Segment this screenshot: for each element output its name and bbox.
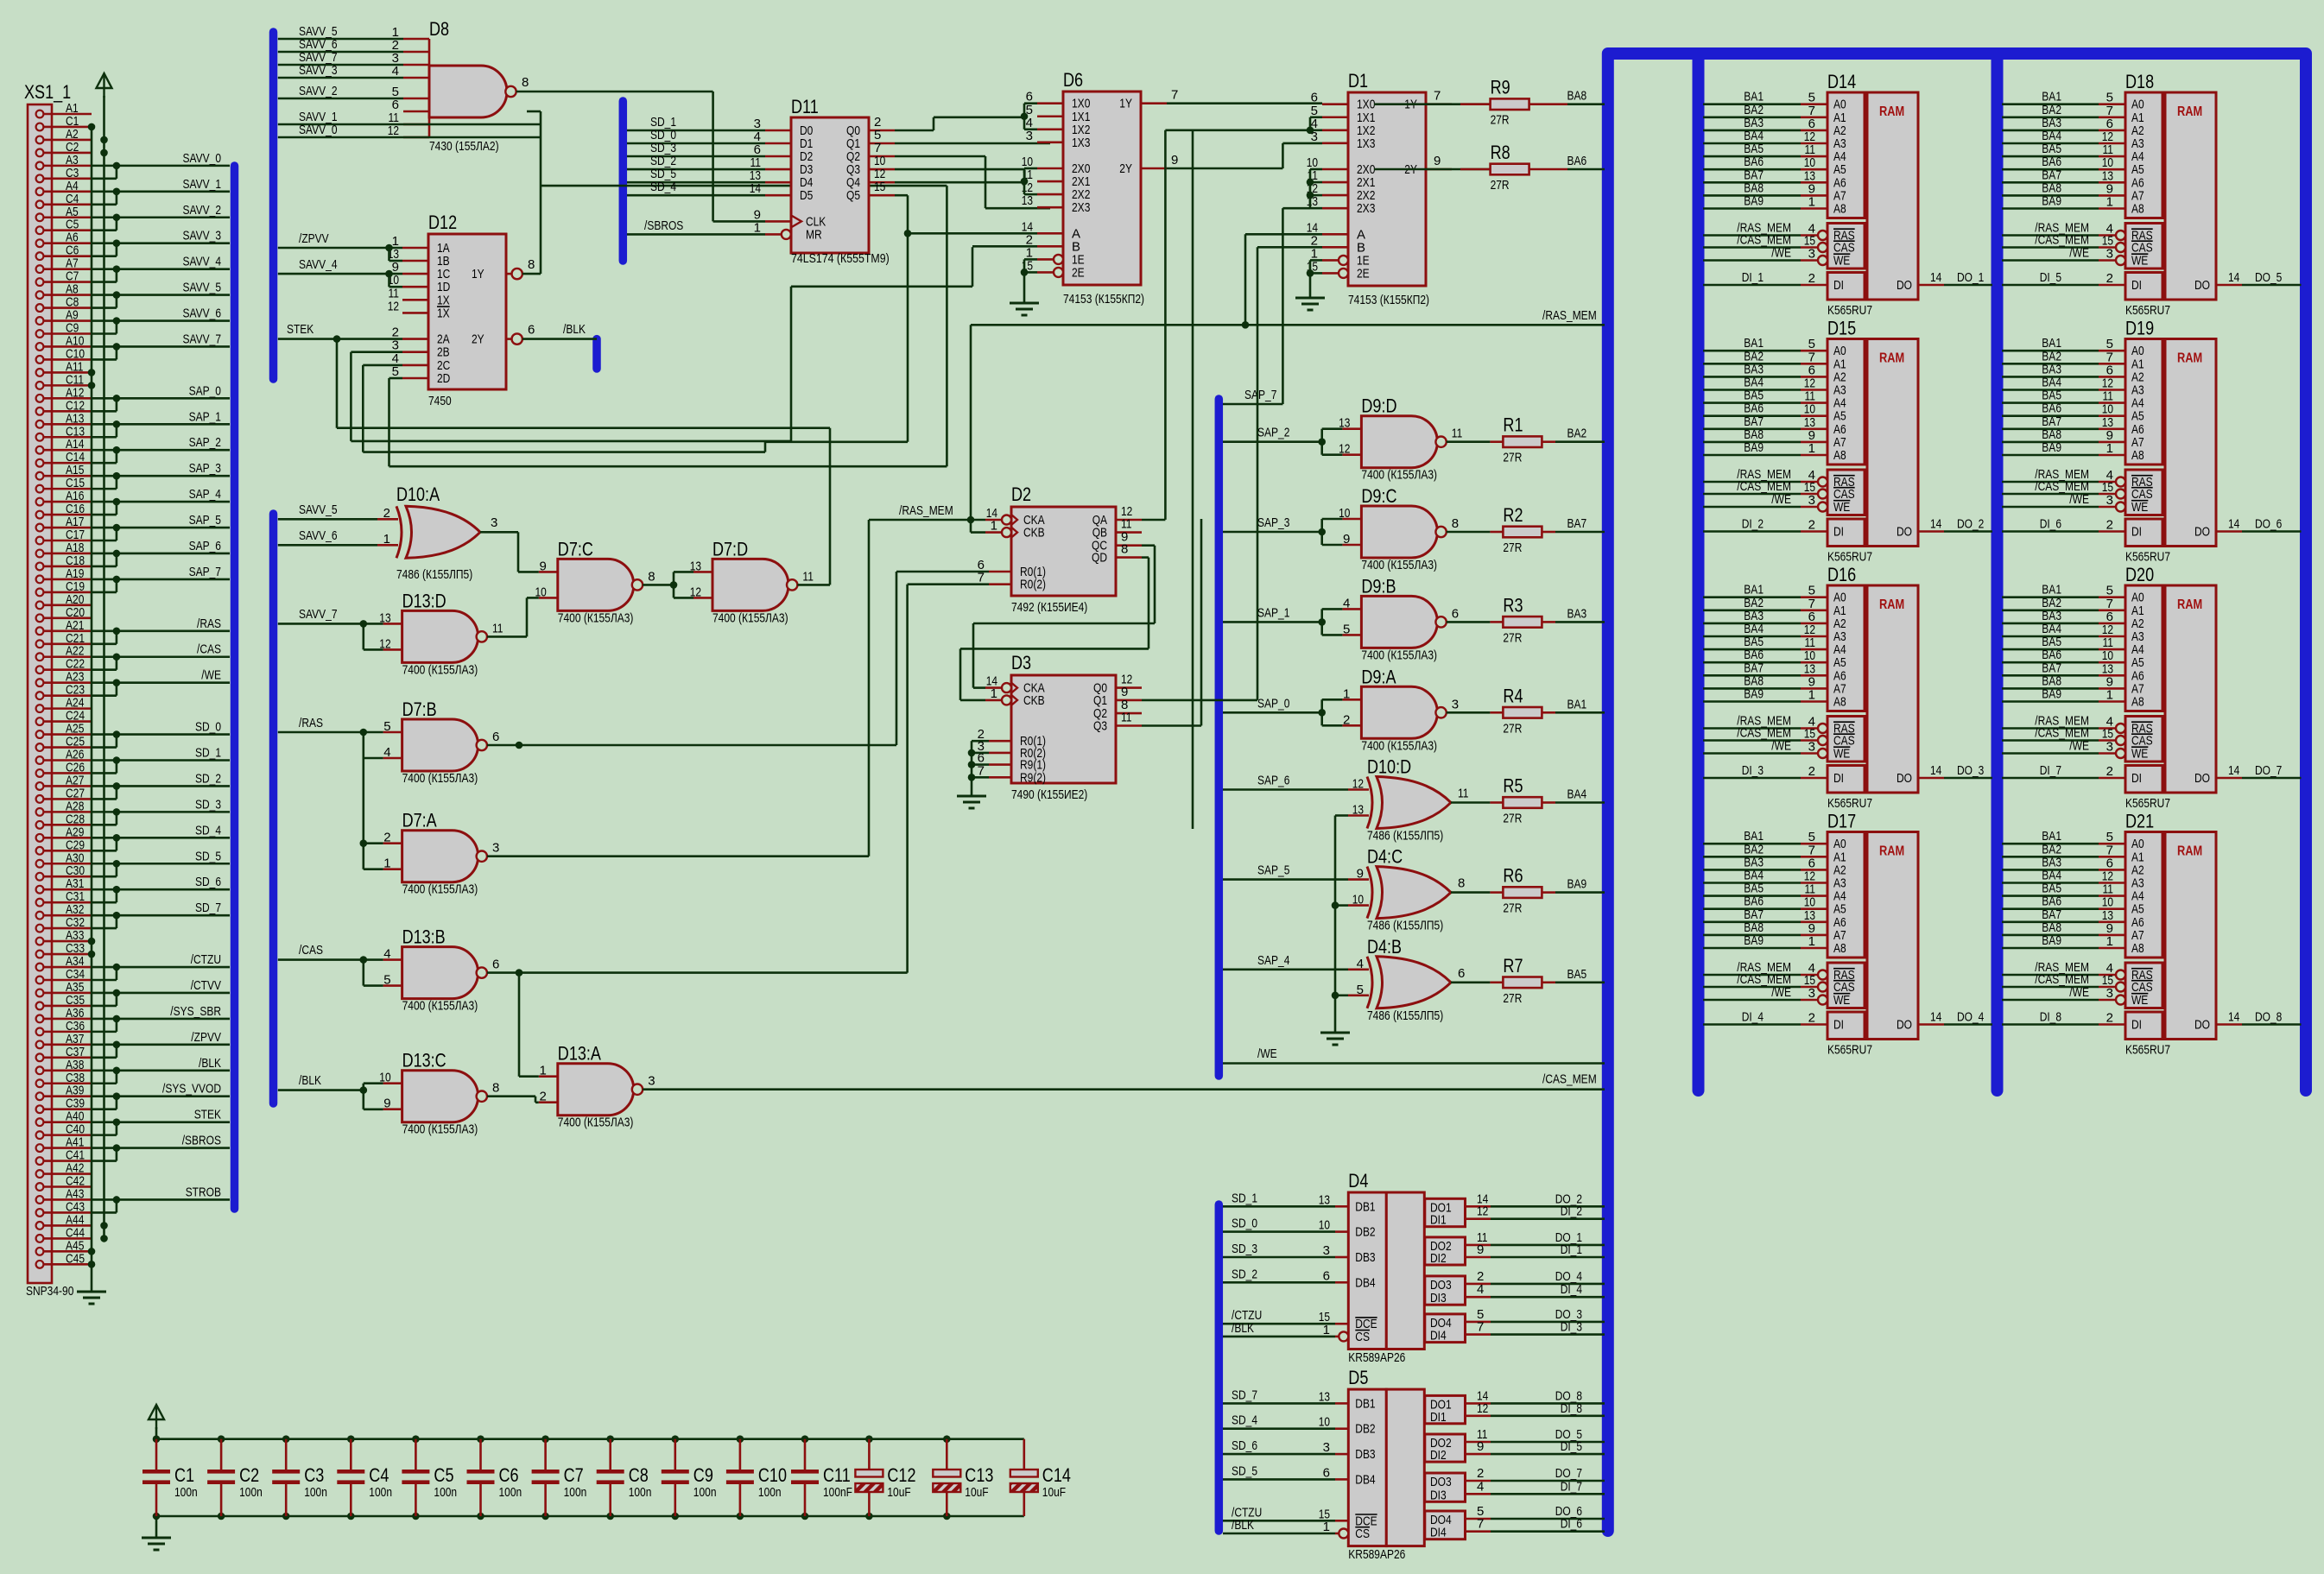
svg-text:DO_5: DO_5 xyxy=(2255,270,2282,285)
svg-text:6: 6 xyxy=(492,958,499,972)
svg-text:10uF: 10uF xyxy=(965,1485,988,1500)
svg-text:DO_3: DO_3 xyxy=(1957,763,1984,778)
svg-text:D13:D: D13:D xyxy=(402,590,446,611)
svg-text:A8: A8 xyxy=(2131,695,2144,710)
svg-text:SAVV_2: SAVV_2 xyxy=(299,84,338,98)
svg-text:14: 14 xyxy=(2228,270,2239,285)
svg-text:/BLK: /BLK xyxy=(563,322,586,337)
svg-text:8: 8 xyxy=(1458,876,1465,891)
svg-text:100n: 100n xyxy=(434,1485,457,1500)
svg-text:STROB: STROB xyxy=(186,1185,221,1199)
svg-text:1X3: 1X3 xyxy=(1357,136,1375,151)
svg-text:/BLK: /BLK xyxy=(1232,1518,1254,1533)
svg-text:DI_2: DI_2 xyxy=(1742,517,1764,532)
svg-text:2: 2 xyxy=(2106,271,2113,286)
svg-text:1: 1 xyxy=(991,686,997,701)
svg-text:3: 3 xyxy=(492,841,499,856)
svg-text:BA9: BA9 xyxy=(2042,440,2061,455)
svg-text:2: 2 xyxy=(1808,1011,1815,1026)
svg-text:SAP_4: SAP_4 xyxy=(1257,953,1289,968)
svg-text:3: 3 xyxy=(1808,740,1815,755)
svg-text:STEK: STEK xyxy=(194,1108,221,1122)
svg-text:3: 3 xyxy=(648,1074,655,1089)
svg-text:4: 4 xyxy=(392,64,399,79)
svg-text:1: 1 xyxy=(2106,441,2113,456)
svg-text:10uF: 10uF xyxy=(887,1485,910,1500)
svg-text:DO_2: DO_2 xyxy=(1957,517,1984,532)
svg-text:K565RU7: K565RU7 xyxy=(2125,796,2170,811)
svg-text:WE: WE xyxy=(1833,254,1850,269)
svg-text:BA9: BA9 xyxy=(2042,194,2061,209)
svg-text:SAVV_3: SAVV_3 xyxy=(299,63,338,78)
svg-text:SD_4: SD_4 xyxy=(195,823,221,838)
svg-text:27R: 27R xyxy=(1503,540,1522,555)
svg-text:/ZPVV: /ZPVV xyxy=(299,231,329,246)
svg-text:SAVV_5: SAVV_5 xyxy=(299,503,338,517)
svg-text:D14: D14 xyxy=(1827,71,1856,92)
svg-text:R4: R4 xyxy=(1503,685,1523,706)
svg-text:SD_7: SD_7 xyxy=(195,901,221,915)
svg-text:SAP_1: SAP_1 xyxy=(189,409,221,424)
svg-text:7486 (К155ЛП5): 7486 (К155ЛП5) xyxy=(1367,1008,1443,1023)
svg-text:/RAS: /RAS xyxy=(197,616,221,631)
svg-text:DO_6: DO_6 xyxy=(2255,517,2282,532)
svg-text:SAVV_2: SAVV_2 xyxy=(183,203,222,218)
svg-text:2: 2 xyxy=(1808,271,1815,286)
svg-text:/WE: /WE xyxy=(2069,492,2089,507)
svg-text:K565RU7: K565RU7 xyxy=(1827,303,1872,318)
svg-text:27R: 27R xyxy=(1491,113,1510,128)
svg-text:14: 14 xyxy=(1930,270,1941,285)
svg-text:D10:A: D10:A xyxy=(396,484,440,505)
svg-text:DO_1: DO_1 xyxy=(1957,270,1984,285)
svg-text:WE: WE xyxy=(2131,747,2148,762)
svg-text:SD_2: SD_2 xyxy=(195,771,221,786)
svg-text:R7: R7 xyxy=(1503,955,1523,977)
svg-text:9: 9 xyxy=(539,559,546,573)
svg-text:KR589AP26: KR589AP26 xyxy=(1348,1547,1405,1562)
svg-text:74LS174 (К555ТМ9): 74LS174 (К555ТМ9) xyxy=(791,251,890,266)
svg-text:1X3: 1X3 xyxy=(1072,136,1090,150)
svg-text:C2: C2 xyxy=(239,1464,259,1486)
svg-text:WE: WE xyxy=(1833,747,1850,762)
svg-text:/RAS_MEM: /RAS_MEM xyxy=(899,503,953,518)
svg-text:DI_8: DI_8 xyxy=(2040,1010,2061,1025)
svg-text:DB1: DB1 xyxy=(1355,1396,1375,1411)
svg-text:C12: C12 xyxy=(887,1464,915,1486)
svg-text:SAP_2: SAP_2 xyxy=(189,435,221,450)
svg-text:1: 1 xyxy=(2106,688,2113,703)
svg-text:SAP_5: SAP_5 xyxy=(189,513,221,528)
svg-text:/RAS: /RAS xyxy=(299,716,323,730)
svg-text:2: 2 xyxy=(1808,518,1815,533)
svg-text:15: 15 xyxy=(874,180,885,194)
svg-text:MR: MR xyxy=(806,227,822,242)
svg-text:DO: DO xyxy=(1897,1018,1912,1033)
svg-text:R0(2): R0(2) xyxy=(1020,578,1046,592)
svg-text:6: 6 xyxy=(492,730,499,744)
svg-text:WE: WE xyxy=(2131,993,2148,1008)
svg-text:7: 7 xyxy=(1434,89,1441,104)
svg-text:SD_5: SD_5 xyxy=(195,849,221,863)
svg-text:7400 (К155ЛА3): 7400 (К155ЛА3) xyxy=(402,999,478,1014)
svg-text:D17: D17 xyxy=(1827,811,1856,832)
svg-text:11: 11 xyxy=(1452,427,1463,441)
svg-text:1: 1 xyxy=(1323,1520,1330,1534)
svg-text:7400 (К155ЛА3): 7400 (К155ЛА3) xyxy=(402,1122,478,1137)
svg-text:100n: 100n xyxy=(174,1485,198,1500)
svg-text:BA9: BA9 xyxy=(1744,440,1764,455)
svg-text:D4:B: D4:B xyxy=(1367,936,1402,958)
svg-text:D4:C: D4:C xyxy=(1367,846,1403,868)
svg-text:2: 2 xyxy=(2106,764,2113,779)
svg-text:K565RU7: K565RU7 xyxy=(1827,1043,1872,1058)
svg-text:C4: C4 xyxy=(369,1464,389,1486)
svg-text:BA9: BA9 xyxy=(1744,194,1764,209)
svg-text:DO: DO xyxy=(1897,771,1912,786)
svg-text:DI: DI xyxy=(1833,525,1844,540)
svg-text:DI_6: DI_6 xyxy=(1561,1517,1582,1532)
svg-text:DB4: DB4 xyxy=(1355,1275,1375,1290)
svg-text:DI_4: DI_4 xyxy=(1742,1010,1764,1025)
svg-text:R1: R1 xyxy=(1503,414,1523,436)
svg-text:3: 3 xyxy=(2106,493,2113,508)
svg-text:7400 (К155ЛА3): 7400 (К155ЛА3) xyxy=(712,610,788,625)
svg-text:14: 14 xyxy=(750,181,761,196)
svg-text:C5: C5 xyxy=(434,1464,453,1486)
svg-text:D7:D: D7:D xyxy=(712,538,748,559)
svg-text:4: 4 xyxy=(1343,596,1350,610)
svg-text:7400 (К155ЛА3): 7400 (К155ЛА3) xyxy=(1361,738,1437,753)
svg-text:SD_5: SD_5 xyxy=(1232,1463,1257,1478)
svg-text:2E: 2E xyxy=(1357,266,1370,281)
svg-text:DI: DI xyxy=(2131,278,2142,293)
svg-text:A8: A8 xyxy=(1833,695,1846,710)
svg-text:D10:D: D10:D xyxy=(1367,756,1411,778)
svg-text:/WE: /WE xyxy=(2069,739,2089,754)
svg-text:7400 (К155ЛА3): 7400 (К155ЛА3) xyxy=(1361,558,1437,572)
svg-text:DO_7: DO_7 xyxy=(2255,763,2282,778)
svg-text:12: 12 xyxy=(388,299,399,313)
svg-text:D13:A: D13:A xyxy=(558,1043,601,1065)
svg-text:9: 9 xyxy=(383,1097,390,1111)
svg-text:BA6: BA6 xyxy=(1567,154,1587,168)
svg-text:SD_4: SD_4 xyxy=(650,180,676,194)
svg-text:SAP_4: SAP_4 xyxy=(189,487,221,502)
svg-text:27R: 27R xyxy=(1503,812,1522,826)
svg-text:DO: DO xyxy=(1897,278,1912,293)
svg-text:DI: DI xyxy=(1833,771,1844,786)
svg-text:100n: 100n xyxy=(564,1485,587,1500)
svg-text:C13: C13 xyxy=(965,1464,993,1486)
svg-text:5: 5 xyxy=(383,719,390,734)
svg-text:DI_1: DI_1 xyxy=(1561,1242,1582,1257)
svg-text:D8: D8 xyxy=(429,18,449,40)
svg-text:7: 7 xyxy=(1477,1320,1484,1335)
svg-text:DO_4: DO_4 xyxy=(1957,1010,1984,1025)
svg-text:D11: D11 xyxy=(791,96,819,117)
svg-text:/WE: /WE xyxy=(2069,246,2089,261)
svg-text:10uF: 10uF xyxy=(1042,1485,1066,1500)
svg-text:/BLK: /BLK xyxy=(199,1056,221,1071)
svg-text:DI4: DI4 xyxy=(1430,1329,1447,1343)
svg-text:1: 1 xyxy=(754,220,761,235)
svg-text:27R: 27R xyxy=(1503,991,1522,1006)
svg-text:10: 10 xyxy=(1352,893,1364,907)
svg-text:RAM: RAM xyxy=(2177,597,2202,612)
svg-text:DI: DI xyxy=(1833,278,1844,293)
svg-text:CS: CS xyxy=(1355,1527,1370,1541)
svg-text:9: 9 xyxy=(1171,153,1178,168)
svg-text:RAM: RAM xyxy=(1879,104,1904,119)
svg-text:/WE: /WE xyxy=(201,668,221,683)
svg-text:1: 1 xyxy=(1808,441,1815,456)
svg-text:R6: R6 xyxy=(1503,865,1523,887)
svg-text:C11: C11 xyxy=(823,1464,851,1486)
svg-text:7400 (К155ЛА3): 7400 (К155ЛА3) xyxy=(558,1116,634,1130)
svg-text:13: 13 xyxy=(1022,193,1033,208)
svg-text:4: 4 xyxy=(1477,1282,1484,1297)
svg-text:BA9: BA9 xyxy=(2042,687,2061,702)
svg-text:27R: 27R xyxy=(1503,451,1522,465)
svg-text:13: 13 xyxy=(1319,1192,1330,1207)
svg-text:DI_6: DI_6 xyxy=(2040,517,2061,532)
svg-text:/CTVV: /CTVV xyxy=(191,978,221,993)
svg-text:SAP_7: SAP_7 xyxy=(189,565,221,579)
svg-text:K565RU7: K565RU7 xyxy=(2125,303,2170,318)
svg-text:SAP_2: SAP_2 xyxy=(1257,426,1289,440)
svg-text:5: 5 xyxy=(383,973,390,988)
svg-text:7: 7 xyxy=(1477,1517,1484,1532)
svg-text:1: 1 xyxy=(383,532,390,547)
svg-text:C3: C3 xyxy=(304,1464,324,1486)
svg-text:100n: 100n xyxy=(629,1485,652,1500)
svg-text:DI_5: DI_5 xyxy=(2040,270,2061,285)
svg-text:R9: R9 xyxy=(1491,77,1510,98)
svg-text:3: 3 xyxy=(1323,1440,1330,1455)
svg-text:27R: 27R xyxy=(1503,630,1522,645)
svg-text:D18: D18 xyxy=(2125,71,2154,92)
svg-text:100n: 100n xyxy=(369,1485,392,1500)
svg-text:D9:A: D9:A xyxy=(1361,666,1396,687)
svg-text:5: 5 xyxy=(392,364,399,379)
svg-text:R3: R3 xyxy=(1503,594,1523,616)
svg-text:7400 (К155ЛА3): 7400 (К155ЛА3) xyxy=(402,662,478,677)
svg-text:8: 8 xyxy=(492,1081,499,1096)
svg-text:SD_0: SD_0 xyxy=(1232,1217,1257,1231)
svg-text:BA9: BA9 xyxy=(2042,933,2061,948)
svg-text:DI2: DI2 xyxy=(1430,1448,1447,1463)
svg-text:C14: C14 xyxy=(1042,1464,1071,1486)
svg-text:SD_3: SD_3 xyxy=(195,797,221,812)
svg-text:WE: WE xyxy=(2131,500,2148,515)
svg-text:RAM: RAM xyxy=(1879,597,1904,612)
svg-text:1: 1 xyxy=(1808,195,1815,210)
svg-text:/BLK: /BLK xyxy=(299,1073,321,1088)
svg-text:6: 6 xyxy=(528,323,535,338)
svg-text:100n: 100n xyxy=(499,1485,522,1500)
svg-text:7486 (К155ЛП5): 7486 (К155ЛП5) xyxy=(1367,919,1443,933)
svg-text:12: 12 xyxy=(1477,1204,1488,1219)
svg-text:D9:B: D9:B xyxy=(1361,575,1396,597)
svg-text:D21: D21 xyxy=(2125,811,2154,832)
svg-text:8: 8 xyxy=(1452,516,1459,531)
svg-text:/WE: /WE xyxy=(1771,985,1791,1000)
svg-text:1: 1 xyxy=(1343,686,1350,701)
svg-text:BA9: BA9 xyxy=(1744,933,1764,948)
svg-text:11: 11 xyxy=(492,621,503,635)
svg-text:SD_1: SD_1 xyxy=(195,746,221,761)
svg-text:3: 3 xyxy=(2106,247,2113,262)
svg-text:BA8: BA8 xyxy=(1567,89,1587,104)
svg-text:D5: D5 xyxy=(800,188,813,203)
svg-text:12: 12 xyxy=(388,123,399,138)
svg-text:1: 1 xyxy=(1323,1323,1330,1337)
svg-text:D2: D2 xyxy=(1011,484,1031,505)
svg-text:C7: C7 xyxy=(564,1464,584,1486)
svg-text:CKB: CKB xyxy=(1023,693,1045,708)
svg-text:SD_0: SD_0 xyxy=(195,720,221,735)
svg-text:D15: D15 xyxy=(1827,318,1856,339)
svg-text:9: 9 xyxy=(1477,1439,1484,1454)
svg-text:2Y: 2Y xyxy=(1119,161,1132,176)
svg-text:/WE: /WE xyxy=(1257,1046,1277,1061)
svg-text:5: 5 xyxy=(1357,983,1364,997)
svg-text:SAVV_4: SAVV_4 xyxy=(299,257,338,272)
svg-text:SD_2: SD_2 xyxy=(1232,1267,1257,1281)
svg-text:KR589AP26: KR589AP26 xyxy=(1348,1350,1405,1365)
svg-text:14: 14 xyxy=(2228,1010,2239,1025)
svg-text:7492 (К155ИЕ4): 7492 (К155ИЕ4) xyxy=(1011,600,1087,615)
svg-text:2: 2 xyxy=(1343,712,1350,727)
svg-text:D5: D5 xyxy=(1348,1367,1368,1388)
svg-text:RAM: RAM xyxy=(2177,351,2202,366)
svg-text:CS: CS xyxy=(1355,1330,1370,1344)
svg-text:D13:B: D13:B xyxy=(402,926,446,948)
svg-text:1: 1 xyxy=(991,519,997,534)
svg-text:DI_2: DI_2 xyxy=(1561,1204,1582,1219)
svg-text:A8: A8 xyxy=(1833,202,1846,217)
svg-text:DI3: DI3 xyxy=(1430,1291,1447,1305)
svg-text:3: 3 xyxy=(2106,740,2113,755)
svg-text:DB3: DB3 xyxy=(1355,1447,1375,1462)
svg-text:2D: 2D xyxy=(437,371,450,386)
svg-text:Q3: Q3 xyxy=(1093,719,1107,734)
svg-text:DI_7: DI_7 xyxy=(2040,763,2061,778)
svg-text:RAM: RAM xyxy=(2177,844,2202,859)
svg-text:D7:C: D7:C xyxy=(558,538,593,559)
svg-text:SAVV_7: SAVV_7 xyxy=(299,607,338,622)
svg-text:WE: WE xyxy=(1833,500,1850,515)
svg-text:RAM: RAM xyxy=(1879,844,1904,859)
svg-text:10: 10 xyxy=(1319,1218,1330,1233)
svg-text:100n: 100n xyxy=(693,1485,717,1500)
svg-text:D1: D1 xyxy=(1348,70,1368,92)
svg-text:SAVV_0: SAVV_0 xyxy=(183,151,222,166)
svg-text:D7:B: D7:B xyxy=(402,699,437,720)
svg-text:D9:D: D9:D xyxy=(1361,395,1396,417)
svg-text:SAVV_6: SAVV_6 xyxy=(183,307,222,321)
svg-text:100nF: 100nF xyxy=(823,1485,852,1500)
svg-text:3: 3 xyxy=(491,515,497,530)
svg-text:DI_7: DI_7 xyxy=(1561,1479,1582,1494)
svg-text:3: 3 xyxy=(1808,493,1815,508)
svg-text:11: 11 xyxy=(1458,787,1469,801)
svg-text:3: 3 xyxy=(1808,247,1815,262)
svg-text:74153 (К155КП2): 74153 (К155КП2) xyxy=(1063,292,1144,307)
svg-text:SAP_3: SAP_3 xyxy=(1257,515,1289,530)
svg-text:1X: 1X xyxy=(437,306,450,320)
svg-text:/WE: /WE xyxy=(1771,492,1791,507)
svg-text:DO: DO xyxy=(2194,278,2210,293)
svg-text:DI_4: DI_4 xyxy=(1561,1282,1582,1297)
svg-text:SAP_0: SAP_0 xyxy=(189,383,221,398)
svg-text:R2: R2 xyxy=(1503,504,1523,526)
svg-text:K565RU7: K565RU7 xyxy=(2125,1043,2170,1058)
svg-text:7400 (К155ЛА3): 7400 (К155ЛА3) xyxy=(1361,648,1437,662)
svg-text:7486 (К155ЛП5): 7486 (К155ЛП5) xyxy=(1367,829,1443,844)
svg-text:DI_1: DI_1 xyxy=(1742,270,1764,285)
svg-text:13: 13 xyxy=(690,559,701,573)
svg-text:SNP34-90: SNP34-90 xyxy=(26,1284,73,1299)
svg-text:/ZPVV: /ZPVV xyxy=(191,1030,221,1045)
svg-text:100n: 100n xyxy=(304,1485,327,1500)
svg-text:2: 2 xyxy=(383,506,390,521)
svg-text:4: 4 xyxy=(383,745,390,760)
svg-text:DB2: DB2 xyxy=(1355,1422,1375,1437)
svg-text:27R: 27R xyxy=(1491,178,1510,193)
svg-text:12: 12 xyxy=(1352,777,1364,792)
svg-text:D7:A: D7:A xyxy=(402,810,437,831)
svg-text:8: 8 xyxy=(528,257,535,272)
svg-text:DB1: DB1 xyxy=(1355,1199,1375,1214)
svg-text:DI: DI xyxy=(2131,771,2142,786)
svg-text:D20: D20 xyxy=(2125,564,2154,585)
svg-text:SAVV_3: SAVV_3 xyxy=(183,229,222,243)
svg-text:D6: D6 xyxy=(1063,69,1083,91)
svg-text:DI2: DI2 xyxy=(1430,1251,1447,1266)
svg-text:A8: A8 xyxy=(1833,448,1846,463)
svg-text:BA9: BA9 xyxy=(1744,687,1764,702)
svg-text:DI_3: DI_3 xyxy=(1561,1320,1582,1335)
svg-text:2X3: 2X3 xyxy=(1072,200,1090,215)
svg-text:2: 2 xyxy=(2106,518,2113,533)
svg-text:SD_6: SD_6 xyxy=(195,875,221,889)
svg-text:SAVV_4: SAVV_4 xyxy=(183,255,222,269)
svg-text:DO: DO xyxy=(2194,771,2210,786)
svg-text:100n: 100n xyxy=(239,1485,263,1500)
svg-text:BA3: BA3 xyxy=(1567,606,1587,621)
svg-text:2: 2 xyxy=(2106,1011,2113,1026)
svg-text:13: 13 xyxy=(1352,803,1364,818)
svg-text:1Y: 1Y xyxy=(1119,97,1132,111)
svg-text:BA1: BA1 xyxy=(1567,697,1587,711)
svg-text:6: 6 xyxy=(1323,1268,1330,1283)
svg-text:SAP_0: SAP_0 xyxy=(1257,696,1289,711)
svg-text:/WE: /WE xyxy=(2069,985,2089,1000)
svg-text:/SBROS: /SBROS xyxy=(182,1134,221,1148)
svg-text:4: 4 xyxy=(1357,957,1364,971)
svg-text:14: 14 xyxy=(1930,763,1941,778)
svg-text:1: 1 xyxy=(1808,688,1815,703)
svg-text:/SYS_VVOD: /SYS_VVOD xyxy=(162,1082,221,1097)
svg-text:11: 11 xyxy=(1121,711,1132,725)
svg-text:1: 1 xyxy=(383,857,390,871)
svg-text:7: 7 xyxy=(1171,88,1178,103)
svg-text:/CAS: /CAS xyxy=(197,642,221,657)
svg-text:1: 1 xyxy=(539,1064,546,1078)
svg-text:2: 2 xyxy=(383,831,390,845)
